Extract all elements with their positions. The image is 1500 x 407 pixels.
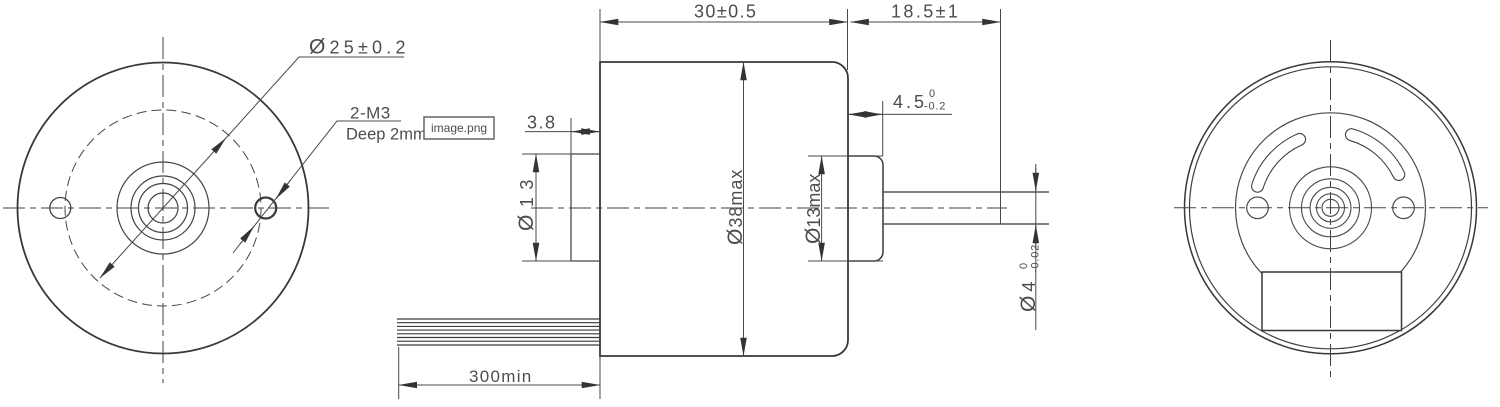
dim 18.5 line [851, 21, 1001, 23]
terminal housing rectangle [1262, 272, 1402, 331]
svg-text:Ø25±0.2: Ø25±0.2 [309, 36, 410, 59]
rear view outer circle [1185, 62, 1477, 354]
dim dia13max line [821, 156, 823, 261]
svg-text:-0.02: -0.02 [1030, 244, 1042, 273]
dim 30 line [600, 21, 848, 23]
dim dia13max extension bottom [808, 260, 883, 262]
mounting hole right 2-M3 [255, 198, 276, 219]
front view horizontal centerline [3, 207, 331, 209]
rear view vertical centerline [1330, 40, 1332, 378]
2-M3 leader upper arrow [276, 181, 290, 199]
svg-text:300min: 300min [469, 367, 533, 386]
dim 4.5 extension line [882, 101, 884, 156]
shaft top edge [883, 191, 1049, 193]
dim 300min line [399, 384, 600, 386]
dim 300min extension left [398, 347, 400, 399]
svg-text:-0.2: -0.2 [924, 101, 946, 113]
svg-text:Ø13: Ø13 [515, 172, 538, 231]
front view outer circle [18, 63, 309, 354]
2-M3 leader line [233, 121, 401, 253]
rear housing circle [1236, 113, 1426, 303]
dia25 dimension diagonal line with arrows [100, 138, 226, 278]
front boss rectangle [571, 154, 600, 261]
rear view horizontal centerline [1174, 207, 1488, 209]
dim dia13 line [535, 154, 537, 261]
dim dia13max extension top [808, 155, 883, 157]
vent slot upper-right [1351, 135, 1398, 175]
dim 30 extension line right [847, 9, 849, 70]
svg-text:image.png: image.png [431, 121, 487, 135]
dia25 leader extension [226, 57, 404, 138]
dim 4.5 line [848, 113, 952, 115]
svg-text:30±0.5: 30±0.5 [694, 2, 757, 22]
front hub circle r46 [117, 162, 209, 254]
svg-text:4.5: 4.5 [893, 92, 927, 112]
dim dia38max line [743, 62, 745, 356]
svg-text:Deep 2mm: Deep 2mm [346, 126, 427, 144]
rear hole left [1247, 197, 1269, 219]
middle view horizontal centerline [531, 207, 1007, 209]
svg-text:Ø4: Ø4 [1017, 278, 1040, 312]
front view vertical centerline [162, 37, 164, 383]
dim 3.8 line [525, 131, 600, 133]
front shaft circle r15 [148, 193, 178, 223]
svg-text:Ø38max: Ø38max [724, 169, 747, 245]
tooltip image.png [424, 117, 494, 139]
svg-text:18.5±1: 18.5±1 [891, 2, 960, 22]
lead wires [397, 319, 600, 345]
motor body outline [600, 62, 848, 356]
shaft end line [1000, 9, 1002, 224]
rear shaft circle r8.5 [1322, 199, 1339, 216]
label dia4 tolerance rotated [1017, 244, 1042, 312]
rear rim circle [1190, 67, 1472, 349]
dim dia13 extension top [522, 153, 600, 155]
svg-text:Ø13max: Ø13max [802, 174, 825, 244]
rear boss [848, 156, 883, 261]
rear hole right [1393, 197, 1415, 219]
svg-text:0: 0 [929, 88, 935, 100]
rear circle r20.5 [1310, 187, 1351, 228]
svg-text:3.8: 3.8 [527, 113, 557, 133]
dim 4.5 arrows [849, 113, 866, 115]
dim dia13 extension bottom [522, 260, 600, 262]
dim dia4 line [1035, 164, 1037, 330]
dim 3.8 arrows [572, 131, 588, 133]
rear circle r14 [1317, 194, 1345, 222]
vent slot upper-left [1258, 139, 1300, 186]
2-M3 leader lower arrow [240, 226, 254, 244]
front bearing circle r24.5 [139, 184, 188, 233]
rear circle r41 [1290, 167, 1372, 249]
front bearing circle r32 [131, 176, 195, 240]
shaft bottom edge [883, 223, 1049, 225]
dim 30 extension line left [599, 9, 601, 62]
dim 300min extension right [599, 356, 601, 399]
mounting hole left [50, 198, 71, 219]
rear circle r29 [1302, 179, 1360, 237]
svg-text:2-M3: 2-M3 [350, 104, 391, 123]
dim 3.8 extension line [570, 118, 572, 154]
dim dia4 arrows [1035, 168, 1037, 191]
svg-text:0: 0 [1018, 263, 1030, 269]
bolt circle dashed [65, 110, 261, 306]
